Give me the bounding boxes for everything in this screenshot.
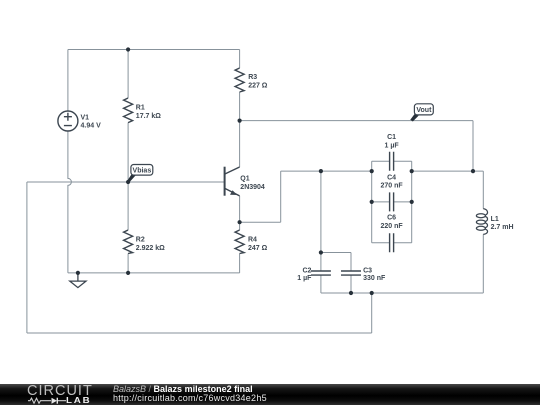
svg-text:2.922 kΩ: 2.922 kΩ: [136, 245, 165, 252]
CircuitLab logo: [27, 386, 93, 398]
svg-text:2N3904: 2N3904: [240, 184, 265, 191]
svg-text:R1: R1: [136, 105, 145, 112]
inductor L1: [476, 209, 487, 235]
node ground rail / R2: [126, 271, 130, 275]
wire bottom cap rail: [321, 292, 483, 294]
C1 label: [385, 134, 400, 149]
wire R2 top lead: [127, 182, 129, 230]
wire R1 bottom lead: [127, 123, 129, 182]
wire C2 branch: [320, 171, 322, 271]
R2 label: [136, 237, 165, 252]
svg-text:Vout: Vout: [416, 107, 432, 114]
node mid rail / ladder left rail: [370, 169, 374, 173]
wire L1 top lead: [482, 171, 484, 209]
svg-text:2.7 mH: 2.7 mH: [491, 224, 514, 231]
V1 label: [81, 114, 102, 129]
node Vout flag: [410, 104, 433, 122]
banner bar: [0, 384, 540, 405]
Q1 label: [240, 175, 265, 191]
banner text: [113, 385, 267, 404]
resistor R3: [235, 68, 244, 92]
wire mid rail right part: [412, 170, 484, 172]
C4 label: [381, 175, 404, 190]
node mid rail / Vout drop: [471, 169, 475, 173]
capacitor C4: [390, 192, 394, 211]
wire mid rail left part: [281, 170, 372, 172]
transistor Q1: [225, 167, 240, 196]
wire feedback bottom run: [27, 332, 372, 334]
wire feedback right vertical: [371, 293, 373, 333]
ground: [70, 273, 86, 288]
wire Vbias base wire: [27, 181, 225, 183]
L1 label: [491, 216, 514, 231]
resistor R2: [124, 230, 133, 254]
svg-text:Q1: Q1: [240, 175, 249, 182]
wire Q1 collector lead: [239, 121, 241, 167]
svg-text:C3: C3: [363, 267, 372, 274]
node C4 branch right: [410, 200, 414, 204]
svg-text:C1: C1: [387, 134, 396, 141]
node bottom rail / feedback: [370, 291, 374, 295]
svg-text:V1: V1: [81, 114, 90, 121]
capacitor C2: [311, 271, 331, 275]
svg-text:R3: R3: [248, 74, 257, 81]
wire C3 top lead: [350, 253, 352, 272]
capacitor C3: [341, 271, 361, 275]
node bottom rail / C3: [349, 291, 353, 295]
svg-text:R2: R2: [136, 237, 145, 244]
wire R3 bottom to Vout node: [239, 92, 241, 121]
R4 label: [248, 237, 268, 252]
node Vbias flag: [127, 165, 152, 183]
svg-text:247 Ω: 247 Ω: [248, 245, 268, 252]
wire C1 branch leads: [372, 160, 412, 162]
capacitor C6: [390, 233, 394, 252]
R1 label: [136, 105, 161, 120]
node Vbias junction: [126, 180, 130, 184]
svg-text:227 Ω: 227 Ω: [248, 83, 268, 90]
node top rail / R1: [126, 47, 130, 51]
wire R3 top lead: [239, 50, 241, 69]
wire R4 bottom lead: [239, 254, 241, 273]
R3 label: [248, 74, 268, 89]
svg-text:270 nF: 270 nF: [381, 182, 404, 189]
svg-text:1 µF: 1 µF: [385, 142, 400, 149]
C2 label: [297, 267, 312, 282]
wire feedback left vertical: [26, 182, 28, 333]
wire V1 top to top rail: [67, 50, 69, 112]
wire V1 bottom with hop over base wire: [68, 131, 72, 273]
capacitor C1: [390, 152, 394, 171]
svg-text:C4: C4: [387, 175, 396, 182]
wire L1 bottom lead: [482, 234, 484, 293]
node mid rail / C2 branch: [319, 169, 323, 173]
svg-text:220 nF: 220 nF: [381, 223, 404, 230]
node emitter / R4: [238, 220, 242, 224]
svg-text:L1: L1: [491, 216, 499, 223]
wire C3 bottom lead: [350, 275, 352, 293]
svg-text:1 µF: 1 µF: [297, 275, 312, 282]
wire emitter node to right: [240, 221, 281, 223]
C6 label: [381, 215, 404, 230]
node R3 / collector / Vout rail: [238, 119, 242, 123]
resistor R1: [124, 98, 133, 123]
wire Q1 emitter to R4: [239, 196, 241, 230]
wire R1 top lead: [127, 50, 129, 99]
svg-text:C6: C6: [387, 215, 396, 222]
node mid rail / ladder right rail: [410, 169, 414, 173]
svg-text:17.7 kΩ: 17.7 kΩ: [136, 113, 161, 120]
C3 label: [363, 267, 386, 282]
wire R2 bottom lead: [127, 254, 129, 273]
node ground rail / ground: [76, 271, 80, 275]
svg-text:C2: C2: [302, 267, 311, 274]
wire top rail: [68, 49, 240, 51]
svg-text:4.94 V: 4.94 V: [81, 123, 102, 130]
wire C2 bottom lead: [320, 275, 322, 293]
node C2 branch / connector: [319, 250, 323, 254]
voltage source V1: [58, 111, 78, 131]
wire jog up to mid rail: [280, 171, 282, 222]
wire Vout vertical drop: [472, 121, 474, 172]
node C4 branch left: [370, 200, 374, 204]
wire Vout rail: [240, 120, 473, 122]
svg-text:Vbias: Vbias: [133, 168, 152, 175]
resistor R4: [235, 230, 244, 254]
wire ground rail: [68, 272, 240, 274]
svg-text:R4: R4: [248, 237, 257, 244]
wire C4 branch leads: [372, 201, 412, 203]
wire cap ladder right rail: [411, 161, 413, 243]
wire C6 branch leads: [372, 242, 412, 244]
svg-text:330 nF: 330 nF: [363, 275, 386, 282]
wire cap ladder left rail: [371, 161, 373, 243]
wire C2-C3 connector: [321, 252, 351, 254]
